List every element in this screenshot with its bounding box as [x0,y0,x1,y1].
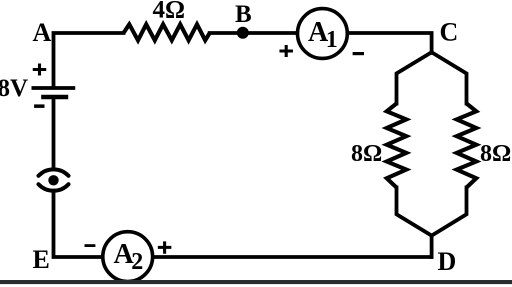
svg-text:4Ω: 4Ω [153,0,186,24]
svg-text:8Ω: 8Ω [480,141,511,167]
svg-text:A: A [33,18,52,47]
svg-text:C: C [440,17,459,46]
svg-text:D: D [438,247,457,276]
svg-text:8V: 8V [0,75,28,102]
svg-text:B: B [235,1,252,28]
svg-text:E: E [33,245,50,274]
svg-text:8Ω: 8Ω [351,141,382,167]
